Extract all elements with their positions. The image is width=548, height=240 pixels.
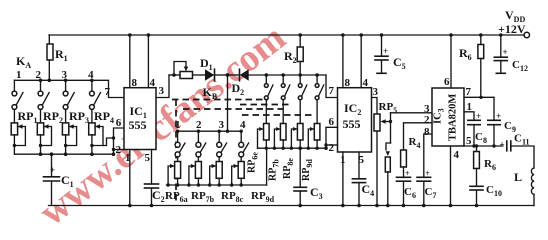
switch KB-1 [175, 131, 185, 161]
pin IC3-3 [424, 103, 430, 115]
svg-text:4: 4 [88, 69, 94, 81]
svg-text:4: 4 [240, 119, 246, 131]
op-amp IC3 TBA820M [432, 88, 464, 146]
wire right bank bus [258, 147, 327, 149]
switch KA-2 [38, 80, 49, 123]
svg-text:8: 8 [345, 77, 351, 89]
capacitor C8 [468, 111, 487, 148]
resistor R1 [47, 35, 68, 80]
pin IC3-4 [449, 146, 460, 207]
switch KB-7 [298, 75, 306, 124]
node VDD terminal [498, 8, 530, 38]
svg-text:3: 3 [62, 69, 68, 81]
potentiometer RP2 [37, 109, 63, 154]
svg-text:555: 555 [343, 117, 361, 131]
svg-text:1: 1 [467, 101, 473, 113]
pin IC1-7 [105, 86, 111, 98]
svg-text:2: 2 [329, 142, 335, 154]
trimmer RP6e [247, 124, 270, 174]
wire left bank bottom bus [167, 184, 267, 186]
switch KB-2 [196, 131, 206, 161]
label KA position numbers 1 2 3 4 [16, 69, 94, 81]
op-amp IC2 555 timer [338, 88, 372, 152]
trimmer RP7b second gang [268, 124, 287, 182]
potentiometer RP4 [89, 109, 114, 154]
switch KB-5 [264, 75, 273, 124]
pin IC2-1 [340, 152, 346, 207]
watermark www.elecfans.com [32, 17, 294, 234]
pin IC2-5 [359, 152, 365, 179]
capacitor C10 [470, 184, 502, 207]
capacitor C6 [397, 169, 416, 207]
trimmer rheostat below RP5 [385, 113, 390, 208]
svg-text:5: 5 [145, 152, 151, 164]
svg-text:6: 6 [444, 76, 450, 88]
potentiometer RP5 [374, 101, 397, 207]
pin IC2-8 [341, 33, 350, 89]
wire IC1 pin6/pin2 node [112, 117, 124, 156]
svg-text:L: L [514, 170, 522, 184]
capacitor C7 [417, 134, 436, 207]
trimmer RP8e [282, 124, 303, 180]
pin IC3-8 [424, 126, 430, 138]
pin IC2-4 [359, 33, 368, 89]
wire KB left bank bar [176, 130, 243, 133]
capacitor C3 [294, 146, 323, 207]
pin IC1-3 [156, 75, 169, 98]
svg-text:2: 2 [196, 119, 202, 131]
svg-text:6: 6 [329, 116, 335, 128]
svg-text:+: + [405, 169, 410, 178]
label KB bank numbers 1 2 3 4 [175, 119, 246, 131]
svg-text:8: 8 [424, 126, 430, 138]
svg-text:+: + [503, 47, 508, 57]
resistor R6 bottom [474, 144, 496, 186]
op-amp IC1 555 timer [124, 88, 156, 150]
svg-text:TBA820M: TBA820M [448, 94, 459, 141]
label KB [203, 85, 218, 101]
switch KA-4 [90, 80, 101, 123]
svg-text:1: 1 [175, 119, 181, 131]
svg-text:7: 7 [466, 86, 472, 98]
svg-text:4: 4 [363, 77, 369, 89]
capacitor C11 [500, 133, 535, 169]
trimmer RP6a [165, 162, 188, 205]
switch KB-4 [239, 131, 249, 161]
capacitor C9 [488, 97, 516, 147]
potentiometer RP3 [62, 109, 89, 154]
switch KB-3 [217, 131, 227, 161]
wire KA bus [14, 80, 124, 97]
trimmer RP8c [208, 162, 244, 205]
pin IC3-2 [424, 114, 430, 126]
trimmer rheostat at IC1 pin3 [169, 62, 205, 79]
svg-text:+: + [425, 169, 430, 178]
pin IC3-1 [464, 101, 474, 120]
pin IC3-6 [444, 33, 453, 88]
wire bottom ground rail [49, 205, 535, 207]
svg-text:4: 4 [150, 77, 156, 89]
svg-text:3: 3 [373, 86, 379, 98]
inductor L [514, 168, 534, 206]
svg-text:+: + [496, 111, 501, 121]
svg-text:1: 1 [16, 69, 22, 81]
svg-text:8: 8 [132, 77, 138, 89]
svg-text:7: 7 [329, 85, 335, 97]
capacitor C5 [375, 33, 406, 73]
svg-text:555: 555 [129, 118, 147, 132]
capacitor C1 [44, 154, 74, 205]
resistor R6 top [459, 33, 484, 97]
wire IC2 pin7 feed [326, 75, 338, 98]
dashed gang coupling lines KB [172, 100, 315, 202]
wire top supply rail [49, 34, 524, 36]
diode D2 [228, 69, 327, 97]
svg-text:+: + [50, 165, 55, 175]
trimmer RP9d [230, 162, 275, 205]
svg-text:2: 2 [424, 114, 430, 126]
trimmer RP9d second gang [301, 124, 320, 182]
node KB line taps [265, 73, 319, 77]
diode D1 [200, 56, 228, 81]
svg-text:3: 3 [219, 119, 225, 131]
svg-text:+: + [500, 140, 505, 150]
wire riser to right bank bus [266, 148, 268, 185]
svg-text:2: 2 [36, 69, 42, 81]
svg-text:1: 1 [340, 154, 346, 166]
capacitor C2 [145, 184, 165, 207]
pin IC1-8 [128, 33, 138, 89]
switch KA-3 [63, 80, 74, 123]
potentiometer RP1 [11, 109, 37, 154]
node D1-D2 junction [226, 73, 230, 131]
svg-text:6: 6 [116, 117, 122, 129]
svg-text:2: 2 [116, 144, 122, 156]
pin IC2-3 [372, 86, 379, 114]
svg-text:+: + [476, 111, 481, 121]
svg-text:5: 5 [359, 154, 365, 166]
capacitor C12 [494, 33, 528, 73]
trimmer RP7b [187, 162, 214, 205]
svg-text:+: + [383, 46, 388, 56]
pin IC3-7 [464, 86, 494, 99]
svg-text:1: 1 [125, 152, 131, 164]
capacitor C4 [352, 179, 374, 208]
svg-text:5: 5 [466, 135, 472, 147]
pin IC1-4 [147, 33, 156, 89]
pin IC1-5 [145, 150, 152, 185]
switch KA-1 [12, 80, 23, 123]
wire RP bottom bus [14, 152, 113, 156]
resistor R2 [284, 33, 303, 75]
switch KB-8 [315, 75, 324, 124]
node KA bus junctions [39, 79, 94, 83]
switch bank KA label [16, 54, 31, 70]
resistor R4 [401, 123, 432, 178]
svg-text:4: 4 [454, 149, 460, 161]
wire IC3 pin3 to trimmer [391, 112, 433, 114]
switch KB-6 [281, 75, 289, 124]
svg-text:3: 3 [159, 85, 165, 97]
svg-text:7: 7 [105, 86, 111, 98]
pin IC3-5 [464, 135, 503, 147]
pin IC1-1 [125, 150, 132, 208]
pin IC2-6 and pin IC2-2 node [324, 116, 337, 154]
